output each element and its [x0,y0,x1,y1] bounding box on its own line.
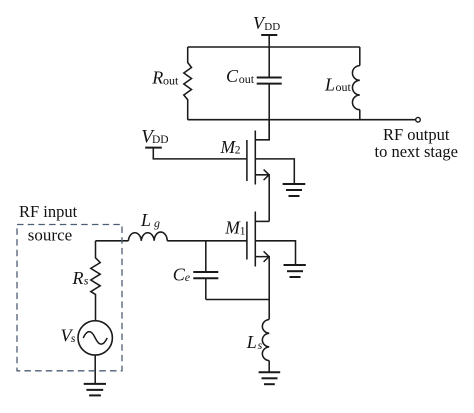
svg-text:L: L [140,210,151,230]
svg-text:e: e [185,270,191,284]
svg-text:to next stage: to next stage [375,142,458,161]
svg-text:L: L [324,74,335,94]
svg-text:DD: DD [264,21,280,33]
svg-text:s: s [84,274,89,288]
svg-text:2: 2 [235,144,241,156]
svg-text:out: out [336,80,352,94]
svg-text:1: 1 [240,225,246,237]
svg-text:source: source [28,225,72,244]
svg-text:s: s [258,338,263,352]
svg-text:out: out [163,73,179,87]
svg-text:g: g [154,216,160,230]
svg-text:out: out [239,72,255,86]
svg-text:L: L [246,332,257,352]
svg-text:s: s [71,331,76,345]
svg-text:RF input: RF input [19,202,78,221]
svg-text:R: R [151,68,163,88]
svg-text:R: R [72,268,84,288]
svg-text:DD: DD [152,134,169,146]
svg-text:C: C [226,66,239,86]
